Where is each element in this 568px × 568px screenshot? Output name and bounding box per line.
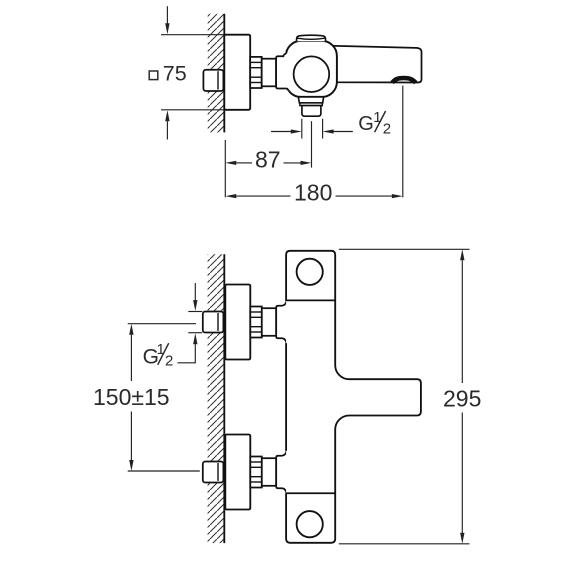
G1/2 lower extension line (bottom view)	[188, 332, 202, 334]
knob face circle (top view)	[294, 56, 330, 92]
dimension 75: upper arrow	[165, 6, 169, 34]
upper flange plate (bottom view)	[225, 285, 250, 360]
body plate outline (bottom view)	[286, 251, 421, 543]
inlet neck outline (top view)	[276, 54, 288, 91]
body plate fill (bottom view)	[286, 251, 421, 543]
G1/2 left arrow	[271, 129, 302, 133]
svg-text:1: 1	[157, 341, 165, 358]
connector sleeve (top view)	[262, 59, 276, 87]
wall face line (bottom view)	[223, 254, 225, 543]
wall hatching (top view)	[208, 14, 225, 133]
outlet lip ring (top view)	[300, 103, 322, 106]
G1/2 upper extension line (bottom view)	[188, 311, 202, 313]
thermostat body (top view)	[286, 41, 337, 97]
lower union nut (bottom view)	[203, 462, 224, 483]
G1/2 right arrow	[323, 129, 353, 133]
label G1/2 (bottom view)	[143, 341, 174, 370]
wall union nut (top view)	[203, 70, 223, 91]
wall face line (top view)	[223, 14, 225, 133]
label G1/2 (top view)	[358, 109, 391, 138]
lower ear seam line	[286, 492, 335, 494]
lower connector sleeve (bottom view)	[262, 458, 276, 486]
295 lower extension line	[339, 543, 470, 545]
lower mounting hole	[297, 511, 323, 537]
threaded bushing (top view)	[250, 57, 262, 88]
upper threaded bushing (bottom view)	[250, 307, 261, 338]
upper inlet neck fill (bottom view)	[276, 301, 286, 343]
svg-text:180: 180	[294, 180, 332, 206]
inlet neck fill (top view)	[276, 54, 289, 91]
180 right extension line (spout tip)	[402, 86, 404, 198]
upper inlet neck outline (bottom view)	[276, 301, 286, 343]
upper ear seam line	[286, 299, 335, 301]
svg-text:87: 87	[255, 146, 281, 172]
dimension line 295	[460, 249, 464, 544]
upper union nut (bottom view)	[203, 312, 224, 333]
150 upper extension line	[128, 323, 196, 325]
dimension 75: top extension line	[161, 34, 224, 36]
G1/2 right extension line (top view)	[322, 119, 324, 139]
dimension 75: bottom extension line	[161, 109, 224, 111]
svg-text:2: 2	[165, 352, 173, 369]
svg-text:295: 295	[443, 385, 481, 411]
wall flange plate (top view)	[224, 35, 250, 110]
svg-text:G: G	[358, 113, 374, 135]
handle cap (top view)	[297, 35, 326, 41]
G1/2 down arrow (bottom view)	[193, 283, 197, 311]
square symbol of dimension 75	[149, 71, 158, 80]
spout (top view)	[330, 46, 422, 83]
body plate left edge mid segment	[285, 343, 287, 451]
lower threaded bushing (bottom view)	[250, 457, 261, 488]
outlet transition (top view)	[298, 97, 323, 103]
G1/2 left extension line (top view)	[301, 119, 303, 139]
lower flange plate (bottom view)	[225, 435, 250, 510]
295 upper extension line	[339, 248, 470, 250]
dimension line 150±15	[129, 324, 133, 471]
outlet centreline	[311, 121, 313, 167]
dimension line 87	[225, 161, 311, 165]
wall hatching (bottom view)	[208, 254, 225, 543]
svg-text:1: 1	[373, 109, 381, 126]
G1/2 up arrow with leader (bottom view)	[178, 333, 198, 363]
aerator nut (top view)	[302, 106, 321, 117]
lower inlet neck fill (bottom view)	[276, 451, 286, 493]
svg-text:2: 2	[383, 121, 391, 138]
87 left extension line	[224, 140, 226, 197]
spout outlet lip (thick wave)	[392, 78, 416, 83]
lower inlet neck outline (bottom view)	[276, 451, 286, 493]
dimension line 180	[225, 194, 402, 198]
upper mounting hole	[297, 259, 323, 285]
upper connector sleeve (bottom view)	[262, 308, 276, 336]
svg-text:150±15: 150±15	[93, 384, 170, 410]
svg-text:75: 75	[163, 62, 187, 86]
dimension 75: lower arrow	[165, 110, 169, 139]
150 lower extension line	[128, 470, 200, 472]
